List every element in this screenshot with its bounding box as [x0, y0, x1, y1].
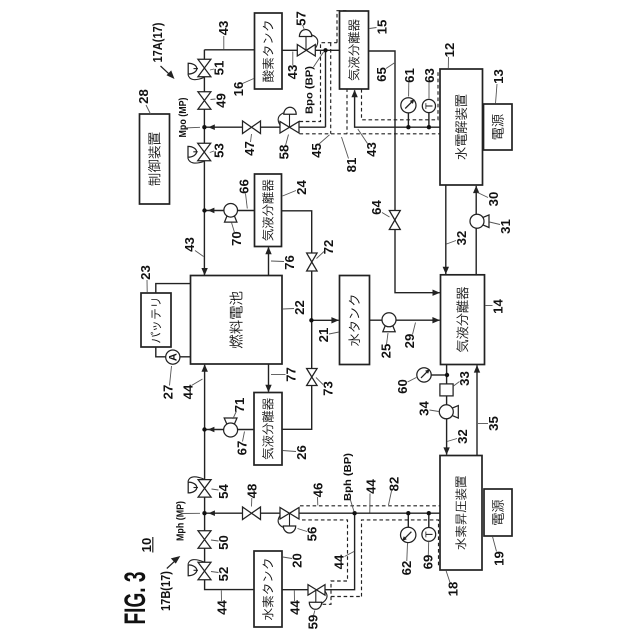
wire: gauge 60 stem	[431, 374, 447, 376]
svg-text:30: 30	[486, 192, 501, 207]
svg-text:70: 70	[229, 231, 244, 246]
pressure gauge 62	[401, 527, 416, 542]
water tank 21	[340, 276, 370, 365]
svg-text:31: 31	[498, 219, 513, 234]
wire: separator 24 to main line via pump 70 (line 66)	[205, 210, 255, 212]
svg-text:57: 57	[294, 11, 309, 26]
arrow toward separator26 branch dot	[208, 427, 215, 433]
valve 51 (motorized)	[198, 59, 211, 77]
svg-text:Bph (BP): Bph (BP)	[342, 453, 354, 501]
valve 72	[307, 253, 318, 271]
node gauge61 tap	[406, 125, 410, 129]
valve 52 actuator arm	[188, 560, 204, 565]
wire: O2 tank to separator 15 via valve 57	[282, 49, 340, 51]
svg-text:FIG. 3: FIG. 3	[119, 572, 152, 625]
gas-liquid separator 15	[340, 11, 369, 89]
svg-text:T: T	[423, 531, 435, 538]
svg-text:54: 54	[216, 484, 231, 499]
svg-text:45: 45	[309, 143, 324, 158]
svg-text:29: 29	[402, 334, 417, 349]
wire: line 30 separator 14 to electrolyzer via pump 31	[475, 186, 477, 275]
svg-text:15: 15	[375, 20, 390, 35]
svg-text:43: 43	[216, 21, 231, 36]
svg-text:24: 24	[294, 180, 309, 195]
gas-liquid separator 26	[254, 393, 282, 466]
svg-text:17A(17): 17A(17)	[150, 23, 165, 63]
node gauge69 tap	[427, 511, 431, 515]
valve 47	[243, 121, 261, 134]
wire: electrolyzer O2 out to separator 15 (line 43)	[355, 90, 440, 127]
svg-text:48: 48	[245, 484, 260, 499]
svg-text:59: 59	[306, 615, 321, 630]
wire: main oxygen supply line 43 (vertical right)	[203, 50, 205, 275]
svg-text:20: 20	[290, 553, 305, 568]
svg-text:62: 62	[399, 561, 414, 576]
wire: line 77 fuel cell to separator 26	[268, 364, 270, 392]
svg-text:26: 26	[294, 445, 309, 460]
valve 56 (back-pressure, Bph)	[280, 508, 299, 520]
svg-text:19: 19	[492, 551, 507, 566]
wire: pilot drop line x=330.7	[330, 43, 332, 134]
svg-text:52: 52	[216, 567, 231, 582]
valve 51 actuator arm	[188, 75, 204, 80]
wire: gauge 61 stem	[407, 112, 409, 127]
pump 31	[483, 215, 489, 228]
svg-text:64: 64	[369, 200, 384, 215]
arrow into water tank	[331, 317, 339, 323]
power supply 19	[484, 489, 512, 536]
svg-text:23: 23	[138, 265, 153, 280]
wire: pilot line valve 56 lower to valve 59	[302, 520, 348, 604]
control device 28	[140, 114, 170, 204]
wire: separator 24 right to separator 26 via valves 72,73	[282, 211, 312, 429]
pump 71	[224, 418, 237, 424]
wire: Mph junction to hydrogen booster 18	[205, 512, 441, 514]
valve 73	[307, 369, 318, 386]
pump 70	[225, 216, 237, 222]
node gauge60 tap	[445, 373, 449, 377]
svg-text:44: 44	[364, 479, 379, 494]
arrow toward Mpo junction	[208, 124, 215, 130]
svg-text:46: 46	[311, 483, 326, 498]
arrow toward separator24 branch dot	[208, 208, 215, 214]
wire: pilot branch valve 59	[331, 596, 362, 598]
node water tank branch	[309, 318, 313, 322]
arrow into fuel cell bottom	[202, 364, 208, 372]
battery 23	[141, 293, 171, 347]
arrow into fuel cell top	[201, 268, 207, 276]
pump 25	[383, 326, 395, 332]
wire: separator 15 outlet 65 down to separator 14 via valve 64	[369, 51, 440, 293]
wire: battery negative lead via ammeter 27	[156, 347, 191, 357]
arrow into separator 15	[351, 90, 357, 98]
svg-text:58: 58	[277, 145, 292, 160]
wire: dashed line separator 15 bottom to electrolyzer	[362, 70, 439, 120]
svg-text:T: T	[424, 102, 436, 109]
svg-text:28: 28	[136, 89, 151, 104]
svg-text:67: 67	[235, 441, 250, 456]
gas-liquid separator 24	[255, 174, 282, 247]
svg-text:A: A	[168, 353, 180, 361]
svg-text:27: 27	[161, 385, 176, 400]
valve 57 (back-pressure)	[297, 45, 315, 57]
svg-text:50: 50	[216, 535, 231, 550]
svg-text:32: 32	[455, 429, 470, 444]
arrow pointer 17B	[167, 559, 178, 569]
wire: line 32 separator 14 to booster 18	[446, 365, 448, 455]
svg-text:14: 14	[491, 299, 506, 314]
valve 58 actuator arm	[278, 113, 284, 126]
valve 59 actuator arm	[322, 591, 327, 604]
svg-text:10: 10	[139, 538, 154, 553]
svg-text:63: 63	[422, 68, 437, 83]
wire: signal line 82 valve 56 to booster 18	[300, 506, 447, 570]
wire: line 76 fuel cell to separator 24	[268, 247, 270, 275]
svg-text:44: 44	[181, 384, 196, 399]
wire: signal line 81 to electrolyzer 12	[300, 70, 449, 134]
valve 53 (motorized)	[198, 143, 211, 161]
ammeter 27	[166, 350, 180, 364]
node Mpo junction	[202, 125, 206, 129]
svg-text:77: 77	[284, 367, 299, 382]
valve 52 (motorized)	[198, 562, 211, 580]
wire: gauge 69 stem	[428, 513, 430, 528]
svg-text:Bpo (BP): Bpo (BP)	[304, 66, 316, 114]
arrow toward Mph junction	[208, 510, 215, 516]
svg-text:71: 71	[232, 398, 247, 413]
valve 58 (back-pressure, Bpo)	[280, 122, 299, 134]
valve 54 (motorized)	[198, 480, 211, 498]
wire: water feed to water tank 21	[312, 319, 339, 321]
valve 48	[243, 507, 261, 520]
node valve57/sep15 junction	[323, 48, 327, 52]
svg-text:44: 44	[288, 600, 303, 615]
wire: battery positive lead	[156, 284, 191, 293]
node separator26 branch	[202, 427, 206, 431]
arrow into separator 14 from valve 64	[433, 290, 441, 296]
svg-text:17B(17): 17B(17)	[158, 571, 173, 611]
svg-text:Mph (MP): Mph (MP)	[176, 501, 187, 541]
valve 50	[198, 531, 211, 548]
arrow into separator 14 from electrolyzer	[443, 267, 449, 275]
wire: H2 tank to Bph junction via valve 59	[282, 513, 355, 590]
valve 53 actuator arm	[188, 158, 204, 163]
svg-text:44: 44	[215, 600, 230, 615]
temperature sensor 63	[422, 99, 435, 112]
svg-text:Mpo (MP): Mpo (MP)	[178, 98, 189, 138]
arrow into booster 18	[443, 447, 449, 455]
hydrogen booster 18	[440, 456, 482, 571]
water electrolysis device 12	[440, 69, 483, 185]
arrow into separator 26	[265, 385, 271, 393]
svg-text:61: 61	[402, 68, 417, 83]
node separator24 branch	[202, 208, 206, 212]
valve 59 (back-pressure)	[308, 585, 325, 596]
svg-text:13: 13	[491, 69, 506, 84]
svg-text:33: 33	[457, 371, 472, 386]
oxygen tank 16	[255, 13, 283, 89]
wire: dashed line along separator 15 left edge	[337, 11, 347, 134]
svg-text:43: 43	[182, 237, 197, 252]
pressure gauge 61	[401, 98, 416, 113]
wire: line 29 water tank to separator 14 via pump 25	[370, 319, 440, 321]
svg-text:56: 56	[305, 527, 320, 542]
wire: Bpo back-pressure line (vertical x=325.5)	[325, 50, 327, 127]
wire: Mpo junction to valve 58	[204, 126, 325, 128]
svg-text:32: 32	[454, 231, 469, 246]
svg-text:35: 35	[486, 416, 501, 431]
svg-text:82: 82	[387, 477, 402, 492]
temperature sensor 69	[422, 528, 436, 542]
node Mph junction	[202, 511, 206, 515]
arrow pointer 17A	[161, 66, 172, 76]
wire: line 35 booster 18 to separator 14	[476, 365, 478, 455]
svg-text:12: 12	[442, 43, 457, 58]
svg-text:66: 66	[237, 179, 252, 194]
arrow into separator 14 from pump 25	[432, 317, 440, 323]
svg-text:47: 47	[242, 141, 257, 156]
orifice/filter 33	[440, 384, 453, 396]
wire: gauge 62 stem	[407, 513, 409, 528]
pressure gauge 60	[417, 368, 431, 382]
svg-text:44: 44	[332, 554, 347, 569]
svg-text:53: 53	[212, 143, 227, 158]
gas-liquid separator 14	[441, 275, 485, 365]
svg-text:25: 25	[379, 344, 394, 359]
pump 34 (compressor)	[452, 406, 458, 419]
wire: pilot line Bph to booster	[362, 520, 439, 597]
svg-text:22: 22	[292, 300, 307, 315]
hydrogen tank 20	[254, 551, 282, 627]
svg-text:21: 21	[316, 328, 331, 343]
svg-text:43: 43	[285, 65, 300, 80]
valve 54 actuator arm	[188, 477, 204, 482]
svg-text:69: 69	[421, 555, 436, 570]
valve 49	[198, 92, 211, 109]
svg-text:65: 65	[374, 67, 389, 82]
svg-text:16: 16	[231, 82, 246, 97]
wire: separator 26 to main line via pump 71 (line 67)	[205, 429, 255, 431]
svg-text:43: 43	[364, 142, 379, 157]
svg-text:51: 51	[212, 61, 227, 76]
valve 64	[389, 211, 400, 230]
svg-text:34: 34	[417, 401, 432, 416]
arrow into separator 14 from booster	[474, 365, 480, 373]
svg-text:73: 73	[321, 381, 336, 396]
svg-text:76: 76	[282, 255, 297, 270]
svg-text:49: 49	[214, 93, 229, 108]
node gauge63 tap	[427, 125, 431, 129]
svg-text:18: 18	[446, 582, 461, 597]
wire: main hydrogen supply line 44 (vertical left)	[205, 365, 254, 590]
wire: line 32 electrolyzer to separator 14	[445, 185, 447, 274]
node Bph line junction	[352, 511, 356, 515]
arrow into electrolyzer from pump 31	[473, 186, 479, 194]
valve 56 actuator arm	[278, 515, 284, 528]
node gauge62 tap	[406, 511, 410, 515]
arrow into separator 24	[265, 247, 271, 255]
fuel cell	[191, 276, 283, 365]
wire: pilot line valve 58 upper loop to valve 57	[300, 43, 338, 122]
power supply 13	[484, 104, 513, 150]
wire: gauge 63 stem	[428, 112, 430, 127]
svg-text:81: 81	[344, 158, 359, 173]
valve 57 actuator arm	[312, 35, 318, 48]
wire: oxygen line O2-tank top loop	[204, 49, 254, 51]
